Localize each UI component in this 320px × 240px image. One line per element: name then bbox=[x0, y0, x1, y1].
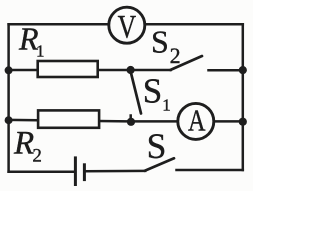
switch S1 blade bbox=[131, 71, 142, 114]
wire battery to S pivot bbox=[84, 170, 145, 173]
wire bottom left bbox=[9, 171, 76, 174]
node row3 middle (S1 bottom) bbox=[127, 118, 135, 126]
svg-text:A: A bbox=[188, 104, 206, 138]
svg-text:S: S bbox=[147, 126, 167, 166]
wire left bbox=[7, 24, 10, 172]
wire S2 contact bbox=[209, 69, 243, 72]
wire row2 left to S2 pivot bbox=[9, 69, 171, 72]
battery short plate bbox=[83, 163, 86, 181]
svg-text:V: V bbox=[118, 10, 137, 46]
wire right bbox=[242, 24, 245, 170]
node row2 middle (S1 top) bbox=[127, 66, 135, 74]
resistor R2 bbox=[38, 110, 99, 127]
wire row3 left bbox=[9, 120, 131, 122]
switch S1 contact stub bbox=[129, 116, 132, 122]
node row2 right bbox=[239, 66, 247, 74]
battery long plate bbox=[74, 156, 77, 186]
wire top bbox=[9, 23, 243, 26]
switch S2 blade bbox=[170, 56, 202, 70]
voltmeter V circle bbox=[109, 7, 145, 43]
node row2 left bbox=[5, 66, 13, 74]
resistor R1 bbox=[38, 61, 98, 77]
node row3 right bbox=[239, 118, 247, 126]
ammeter A circle bbox=[178, 103, 214, 139]
switch S blade bbox=[145, 158, 174, 171]
wire row3 right bbox=[131, 120, 243, 123]
node row3 left bbox=[5, 116, 13, 124]
wire S contact bottom right bbox=[177, 169, 243, 172]
